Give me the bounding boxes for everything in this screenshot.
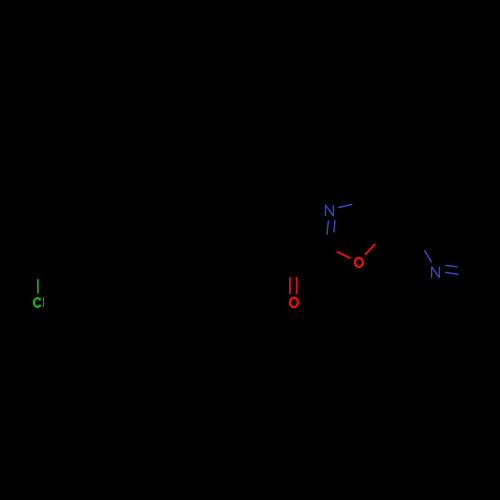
bond N1-C2 pyridine: carbon half (black) (421, 239, 424, 251)
atom Cl label: l glyph (43, 297, 45, 307)
bond O1-C5 oxazole: carbon half (black) (375, 233, 385, 244)
atom O (ketone) label (290, 298, 298, 307)
atom N (pyridine) label (432, 267, 440, 278)
wire: carbon chain C9-C8-C7-C6-C5-C4-C3-C2-C1 (black, invisible on black bg) (38, 247, 294, 265)
bond N1=C6 pyridine: nitrogen halves (blue) (445, 265, 457, 267)
bond N1=C6 pyridine: carbon halves (black) (458, 267, 469, 268)
bond C9-Cl carbon half (black) (37, 265, 39, 279)
bond C4=C5 oxazole (black, both lines) (366, 202, 386, 233)
wire: pyridine carbon skeleton C2-C3-C4-C5-C6 (black) (421, 209, 495, 277)
bond O1-C2 oxazole: oxygen half (red) (337, 252, 351, 259)
bond O1-C2 oxazole: carbon half (black) (325, 247, 337, 251)
atom Cl label: C glyph (34, 298, 40, 307)
atom N (oxazole) label (326, 205, 334, 216)
bond C1=O oxygen halves (red double-bond lines) (289, 277, 291, 294)
bond C9-Cl chlorine half (green) (37, 279, 39, 294)
bond C1=O carbon halves (black) (289, 262, 291, 277)
bond N3-C4 oxazole: nitrogen half (blue) (338, 204, 352, 207)
bond N1-C2 pyridine: nitrogen half (blue) (424, 250, 431, 262)
atom O (oxazole) label (355, 258, 363, 267)
bond N3-C4 oxazole: carbon half (black) (352, 202, 365, 205)
bond O1-C5 oxazole: oxygen half (red) (365, 244, 376, 255)
bond N3=C2 oxazole: carbon halves (black) (326, 235, 327, 247)
bond C1-C2(oxazole) (black) (294, 247, 325, 265)
bond C5(oxazole)-C2(pyridine) (black) (386, 233, 422, 239)
bond N3=C2 oxazole: nitrogen halves (blue) (327, 220, 328, 234)
